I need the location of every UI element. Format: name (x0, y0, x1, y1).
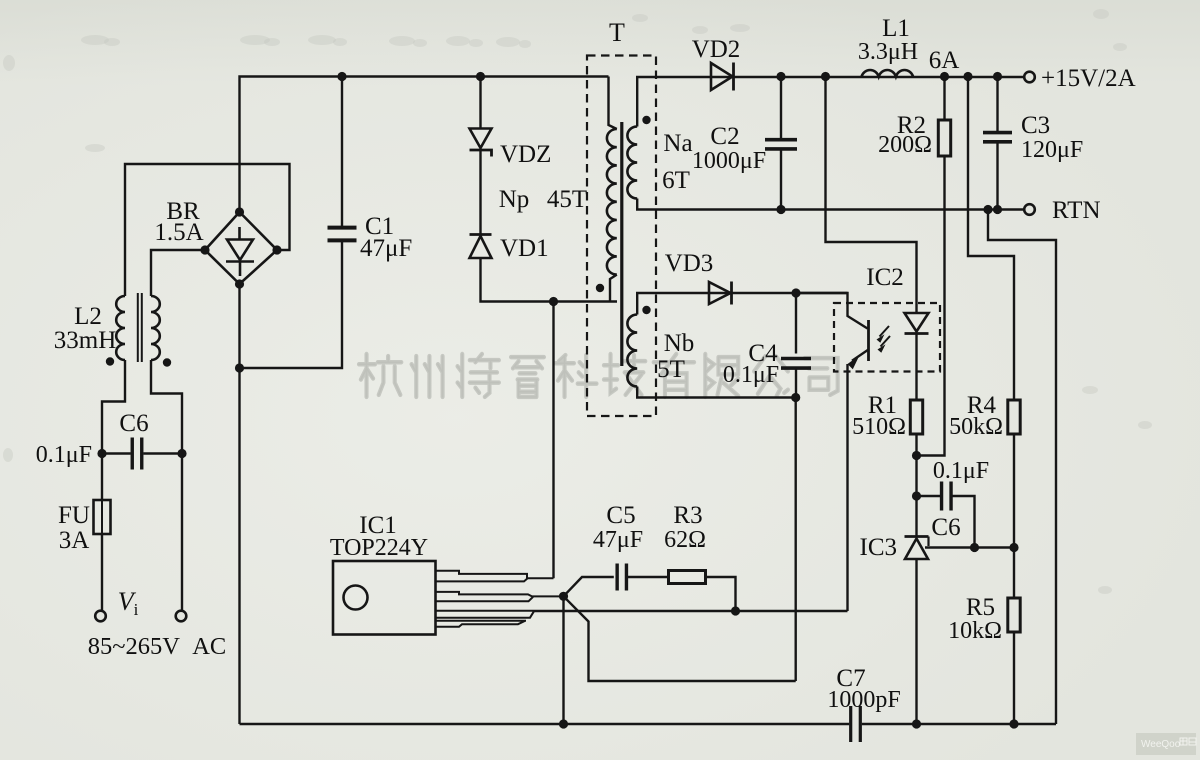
node C4 top (791, 288, 800, 297)
diode VD3 (709, 282, 731, 304)
optocoupler IC2 dashed box (834, 303, 940, 372)
node C3 top (993, 72, 1002, 81)
svg-text:5T: 5T (657, 356, 685, 383)
svg-text:1000pF: 1000pF (827, 687, 900, 713)
wire drain to primary (552, 302, 554, 579)
capacitor C6 0.1uF line filter (132, 438, 142, 470)
svg-text:47μF: 47μF (360, 235, 412, 262)
svg-text:VDZ: VDZ (500, 141, 551, 168)
inductor L2 left winding 33mH (116, 296, 125, 360)
svg-text:L2: L2 (74, 303, 102, 330)
svg-text:RTN: RTN (1052, 197, 1101, 224)
resistor R3 62ohm (669, 571, 706, 584)
svg-text:510Ω: 510Ω (852, 414, 906, 440)
transformer bias winding Nb 5T (627, 315, 637, 387)
diode VD2 (711, 63, 733, 90)
wire control line (534, 610, 848, 612)
wire R1 to IC3 (915, 434, 917, 537)
fuse FU 3A (94, 500, 111, 534)
resistor R4 50kohm (1008, 400, 1020, 434)
wire C3 bottom lead (996, 143, 998, 210)
wire Na bottom / RTN rail (637, 199, 1029, 210)
wire C3 top lead (996, 77, 998, 132)
wire C2 top lead (780, 77, 782, 140)
wire IC2 emitter down (846, 364, 848, 611)
capacitor C5 47uF (617, 564, 626, 591)
node BR AC top (235, 207, 244, 216)
wire C1 bottom (240, 241, 343, 368)
node BR AC left (200, 245, 209, 254)
transformer secondary Na 6T (627, 127, 637, 199)
wire bottom rail right (862, 723, 1056, 725)
svg-text:WeeQoo: WeeQoo (1141, 739, 1182, 750)
capacitor C3 120uF (983, 133, 1012, 142)
wire C6 to fuse (101, 454, 103, 501)
bridge rectifier BR 1.5A (205, 212, 277, 284)
resistor R5 10kohm (1008, 598, 1020, 632)
svg-text:C5: C5 (606, 502, 635, 529)
node RTN down feed (983, 205, 992, 214)
svg-text:47μF: 47μF (593, 527, 643, 553)
L2 core (138, 293, 142, 362)
svg-text:33mH: 33mH (54, 327, 117, 354)
node C6 left (97, 449, 106, 458)
wire R3 to control (706, 577, 736, 611)
wire IC2 collector (796, 293, 868, 329)
transformer core (620, 122, 623, 366)
svg-text:Np: Np (499, 186, 530, 213)
svg-text:L1: L1 (882, 15, 910, 42)
node C4 bottom (791, 393, 800, 402)
L2 phase dot left (106, 357, 114, 365)
capacitor C1 47uF (328, 228, 357, 241)
wire C6fb right down (953, 496, 975, 548)
wire right input column (181, 454, 183, 611)
wire fuse to terminal (101, 534, 103, 611)
wire Na top / +15V rail (637, 77, 1029, 127)
wire source to C5 (564, 577, 614, 596)
wire clamp bottom / primary return (481, 258, 618, 302)
node C2 bottom RTN (776, 205, 785, 214)
terminal +15V/2A (1024, 72, 1035, 83)
wire source to Nb return loop (564, 596, 796, 681)
svg-text:3.3μH: 3.3μH (858, 39, 918, 65)
node R5 bottom (1009, 719, 1018, 728)
node IC1 source (559, 592, 568, 601)
node BR - bottom (235, 279, 244, 288)
wire R2 top lead (943, 77, 945, 121)
svg-text:1.5A: 1.5A (154, 219, 203, 246)
wire RTN to right column (988, 210, 1056, 725)
svg-text:85~265V AC: 85~265V AC (88, 633, 226, 660)
wire Nb top (637, 293, 847, 315)
wire L2 left down to C6 (102, 360, 125, 454)
svg-text:TOP224Y: TOP224Y (330, 535, 428, 561)
node ref C6fb (970, 543, 979, 552)
node ref R4 R5 (1009, 543, 1018, 552)
inductor L1 3.3uH (862, 70, 914, 77)
wire R5 to bottom rail (1013, 632, 1015, 724)
IC2 light arrows (880, 326, 890, 337)
svg-text:VD2: VD2 (692, 36, 741, 63)
terminal Vi right (176, 611, 187, 622)
node R2 top (940, 72, 949, 81)
node IC3 bottom (912, 719, 921, 728)
wire BR left to L2 right winding (151, 250, 205, 296)
svg-text:Nb: Nb (664, 330, 695, 357)
svg-text:IC2: IC2 (866, 264, 904, 291)
wire C5 to R3 (627, 576, 669, 578)
node source bottom (559, 719, 568, 728)
svg-text:VD1: VD1 (500, 235, 549, 262)
svg-text:0.1μF: 0.1μF (36, 442, 92, 468)
wire R2 bottom to R1 node (917, 156, 945, 456)
svg-text:45T: 45T (547, 186, 587, 213)
wire BR bottom / left rail down (238, 284, 240, 724)
shunt regulator IC3 (905, 535, 929, 538)
IC1 pin 3 control (436, 611, 535, 618)
L2 phase dot right (163, 358, 171, 366)
wire BR top to primary rail (240, 77, 609, 213)
svg-text:6A: 6A (929, 47, 960, 74)
WeeQoo watermark (1136, 733, 1196, 755)
IC1 pin 2 (436, 592, 564, 601)
capacitor C7 1000pF (851, 706, 861, 742)
IC1 pin 1 drain (436, 571, 554, 582)
svg-text:10kΩ: 10kΩ (948, 618, 1002, 644)
capacitor C2 1000uF (765, 140, 797, 149)
svg-text:200Ω: 200Ω (878, 132, 932, 158)
primary phase dot (596, 284, 604, 292)
wire BR right loop to L2 left winding (125, 164, 290, 296)
diode VD1 (470, 233, 492, 236)
svg-text:6T: 6T (662, 167, 690, 194)
svg-text:IC3: IC3 (860, 534, 898, 561)
svg-text:50kΩ: 50kΩ (949, 414, 1003, 440)
zener diode VDZ (470, 129, 492, 149)
wire C6 left lead (102, 452, 131, 454)
node R4 feed top (963, 72, 972, 81)
transformer primary winding Np (607, 129, 617, 275)
node drain junction (549, 297, 558, 306)
Nb phase dot (642, 306, 650, 314)
svg-text:0.1μF: 0.1μF (723, 362, 779, 388)
terminal RTN (1024, 204, 1035, 215)
svg-text:R5: R5 (966, 594, 995, 621)
capacitor C4 0.1uF (781, 359, 811, 369)
terminal Vi left (95, 611, 106, 622)
wire C4 top lead (795, 293, 797, 354)
svg-text:1000μF: 1000μF (692, 148, 766, 174)
wire +15V to IC2 LED (826, 77, 917, 314)
wire rail to VDZ (479, 77, 481, 129)
wire C6 right lead (144, 452, 183, 454)
node C3 bottom RTN (993, 205, 1002, 214)
watermark hang-zhou-jiang-rui-ke-ji-you-xian-gong-si (drawn strokes) (359, 354, 401, 397)
wire Nb bottom (637, 387, 796, 398)
node C6 right (177, 449, 186, 458)
svg-text:VD3: VD3 (665, 250, 714, 277)
wire LED to R1 (915, 334, 917, 401)
node R1-R2 junction (912, 451, 921, 460)
svg-text:T: T (609, 18, 625, 47)
svg-text:62Ω: 62Ω (664, 527, 706, 553)
IC1 pin 4 (436, 621, 527, 627)
IC2 emitter with arrow (852, 350, 869, 361)
svg-text:120μF: 120μF (1021, 137, 1083, 163)
svg-text:R3: R3 (673, 502, 702, 529)
node BR + right (272, 245, 281, 254)
wire C4 bottom lead (795, 369, 797, 398)
svg-text:C2: C2 (710, 123, 739, 150)
wire primary bottom exit (610, 275, 617, 302)
wire IC3 anode to bottom rail (915, 559, 917, 724)
node C6fb left junction (912, 491, 921, 500)
svg-text:C3: C3 (1021, 112, 1050, 139)
resistor R1 510ohm (910, 400, 922, 434)
wire +15V to R4 (968, 77, 1014, 401)
capacitor C6 0.1uF feedback (942, 482, 952, 511)
svg-text:C6: C6 (119, 410, 148, 437)
svg-text:3A: 3A (59, 527, 90, 554)
transformer T dashed box (587, 56, 656, 417)
svg-text:FU: FU (58, 502, 90, 529)
wire VDZ to VD1 (479, 150, 481, 234)
wire Nb return down (795, 398, 797, 682)
wire bottom rail left (240, 723, 850, 725)
IC2 base bar (867, 320, 870, 361)
wire C2 bottom lead (780, 150, 782, 210)
resistor R2 200ohm (938, 120, 950, 156)
node C1 top rail (337, 72, 346, 81)
wire L2 right down to C6 (151, 360, 182, 454)
svg-text:C6: C6 (931, 514, 960, 541)
node R3 control junction (731, 606, 740, 615)
svg-text:+15V/2A: +15V/2A (1041, 65, 1136, 92)
wire R4 to R5 (1013, 434, 1015, 598)
IC1 TOP224Y body (333, 561, 436, 635)
node opto feed top (821, 72, 830, 81)
wire to C6fb (917, 495, 941, 497)
node C1 bottom junction (235, 363, 244, 372)
wire source to bottom rail (562, 596, 564, 724)
wire IC3 ref (925, 546, 1014, 548)
svg-text:Na: Na (663, 130, 692, 157)
wire C1 top (341, 77, 343, 228)
IC2 LED (905, 313, 929, 332)
wire primary top entry (609, 77, 617, 130)
svg-text:0.1μF: 0.1μF (933, 458, 989, 484)
node clamp top rail (476, 72, 485, 81)
inductor L2 right winding (151, 296, 160, 360)
Na phase dot (642, 116, 650, 124)
node C2 top (776, 72, 785, 81)
